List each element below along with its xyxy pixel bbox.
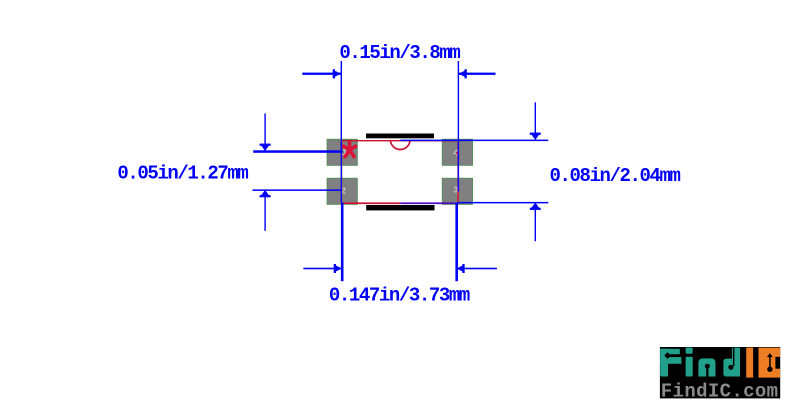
right horizontal line lower bbox=[458, 202, 548, 204]
black trace in C bbox=[767, 353, 773, 372]
extension line bottom-left vertical (thick) bbox=[341, 203, 344, 282]
arrow left-upper pointing down bbox=[260, 144, 270, 151]
package outline bottom edge right part (blue over red, purple) bbox=[400, 202, 459, 204]
arrow bottom-left pointing right bbox=[334, 265, 342, 273]
logo letter i bbox=[686, 348, 693, 354]
pad 3 (bottom-right) bbox=[442, 178, 472, 204]
arrow top-left pointing right bbox=[333, 70, 341, 78]
package outline left edge (red) bbox=[341, 140, 342, 204]
right dimension vertical stem upper bbox=[535, 102, 536, 133]
red dot on pad 4 bbox=[456, 152, 459, 155]
right dimension vertical stem lower bbox=[535, 210, 536, 242]
package outline bottom edge left part (red) bbox=[341, 202, 401, 204]
left dimension vertical stem upper bbox=[264, 113, 265, 150]
black trace in d bbox=[733, 348, 735, 366]
logo letter F bbox=[660, 349, 668, 377]
package outline top edge (red) bbox=[341, 140, 459, 141]
pad 1 (top-left) bbox=[327, 139, 357, 165]
arrow right-upper pointing down bbox=[530, 133, 540, 140]
logo letter I bbox=[746, 348, 753, 378]
pad 2 (bottom-left) bbox=[327, 178, 357, 204]
arrow right-lower pointing up bbox=[530, 203, 540, 210]
extension line top-left vertical bbox=[341, 61, 342, 203]
black trace in n bbox=[706, 366, 708, 376]
FindIC logo bbox=[660, 347, 780, 403]
bottom dimension horizontal right bbox=[457, 268, 497, 270]
arrow left-lower pointing up bbox=[260, 190, 270, 197]
logo letter n bbox=[698, 358, 715, 376]
logo letter C bbox=[759, 348, 781, 378]
logo letter d bbox=[723, 348, 740, 377]
blue arrowheads bbox=[260, 69, 541, 273]
pad 4 (top-right) bbox=[442, 139, 472, 165]
extension line top-right vertical bbox=[458, 61, 459, 191]
svg-text:0.08in/2.04mm: 0.08in/2.04mm bbox=[550, 165, 681, 187]
package outline right edge (red) bbox=[457, 140, 458, 204]
left dimension horizontal lower bbox=[252, 189, 341, 191]
logo black background bbox=[660, 347, 780, 398]
bottom dimension horizontal left bbox=[303, 268, 341, 270]
pin-1 notch arc (red semicircle) bbox=[391, 141, 411, 150]
right horizontal line upper bbox=[400, 140, 548, 142]
top dimension horizontal left bbox=[302, 73, 340, 75]
black trace through F and i bbox=[668, 355, 682, 357]
pin-1 asterisk marker (red) bbox=[344, 143, 356, 157]
blue lines bbox=[252, 61, 548, 281]
svg-text:0.147in/3.73mm: 0.147in/3.73mm bbox=[329, 285, 470, 307]
top dimension horizontal right bbox=[459, 73, 496, 75]
svg-text:0.05in/1.27mm: 0.05in/1.27mm bbox=[117, 163, 248, 185]
svg-text:FindIC.com: FindIC.com bbox=[661, 381, 779, 403]
arrow bottom-right pointing left bbox=[456, 265, 464, 273]
bottom black body bar bbox=[366, 205, 434, 210]
svg-text:0.15in/3.8mm: 0.15in/3.8mm bbox=[339, 42, 460, 64]
arrow top-right pointing left bbox=[459, 70, 467, 78]
left dimension horizontal upper (thick) bbox=[253, 150, 343, 153]
top black body bar bbox=[366, 134, 434, 139]
left dimension vertical stem lower bbox=[264, 197, 265, 231]
extension line bottom-right vertical (thick) bbox=[455, 203, 458, 282]
